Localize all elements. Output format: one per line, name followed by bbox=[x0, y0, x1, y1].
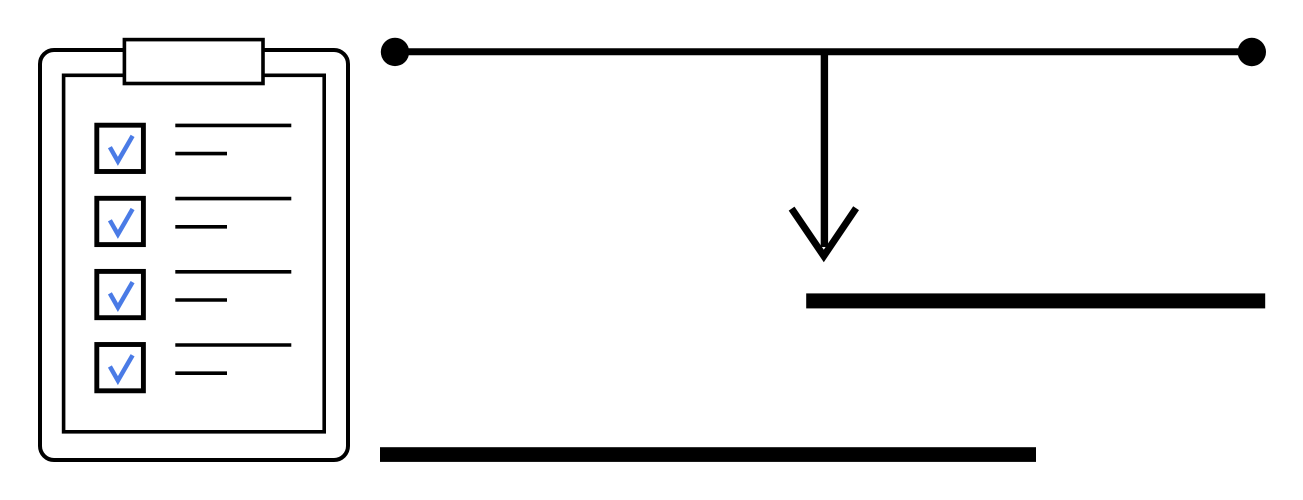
middle bar bbox=[806, 293, 1265, 308]
checkmark 1 bbox=[110, 136, 133, 161]
list line 1 short bbox=[175, 152, 227, 156]
list line 1 long bbox=[175, 124, 291, 128]
list line 3 long bbox=[175, 270, 291, 274]
arrow stem wire bbox=[821, 52, 828, 247]
clipboard board bbox=[40, 50, 348, 460]
list line 4 short bbox=[175, 371, 227, 375]
checkbox 3 bbox=[97, 271, 144, 317]
checkbox 1 bbox=[97, 125, 144, 171]
timeline wire bbox=[395, 48, 1252, 55]
clipboard paper bbox=[64, 75, 325, 432]
checkmark 2 bbox=[110, 209, 133, 234]
checkbox 4 bbox=[97, 345, 144, 391]
list line 4 long bbox=[175, 343, 291, 347]
checkbox 2 bbox=[97, 198, 144, 244]
list line 2 long bbox=[175, 197, 291, 201]
bottom bar bbox=[380, 447, 1036, 462]
checkmark 4 bbox=[110, 355, 133, 380]
node right endpoint bbox=[1238, 38, 1266, 66]
clipboard clip bbox=[124, 40, 263, 84]
list line 2 short bbox=[175, 225, 227, 229]
arrow head bbox=[792, 208, 857, 256]
list line 3 short bbox=[175, 298, 227, 302]
node left endpoint bbox=[381, 38, 409, 66]
checkmark 3 bbox=[110, 282, 133, 307]
